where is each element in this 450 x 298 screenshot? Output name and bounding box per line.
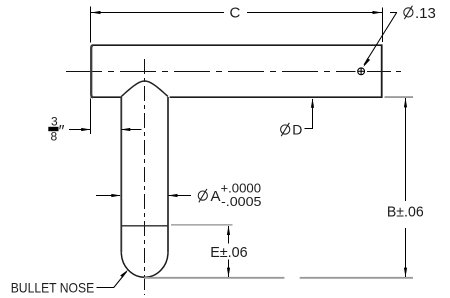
svg-text:-.0005: -.0005 (221, 195, 262, 209)
dim E line (228, 226, 230, 277)
nose tangency line (121, 225, 168, 227)
svg-text:BULLET NOSE: BULLET NOSE (11, 279, 95, 295)
bar body outline (91, 44, 383, 98)
hole leader arrow (363, 58, 370, 67)
svg-text:D: D (292, 121, 302, 137)
svg-text:.13: .13 (415, 5, 436, 22)
svg-text:+.0000: +.0000 (221, 182, 262, 196)
svg-text:B±.06: B±.06 (387, 203, 424, 220)
dim B arrows (404, 98, 407, 108)
dim 3/8 extension line (90, 99, 92, 135)
hole circle (358, 68, 365, 75)
dimension C extension line right (382, 8, 384, 43)
bar left end (91, 45, 93, 97)
bottom extension line (144, 277, 413, 279)
horizontal centerline (66, 71, 404, 73)
dimension C line (91, 12, 382, 14)
dim B extension line top (385, 96, 414, 98)
stem-bar intersection dome (121, 81, 168, 97)
svg-text:E±.06: E±.06 (210, 244, 247, 261)
dim A label (198, 182, 261, 209)
dim 3/8 arrow left (69, 129, 90, 131)
dim D leader (305, 99, 313, 129)
svg-text:A: A (211, 188, 221, 205)
dim B line (405, 98, 407, 277)
bullet nose leader arrow (120, 270, 128, 278)
dim 3/8 label (48, 115, 64, 144)
svg-text:3: 3 (51, 115, 58, 129)
dim E extension line (171, 224, 233, 226)
dimension C arrows (91, 11, 101, 14)
dim 3/8 arrow right (122, 129, 142, 131)
dim A arrow left (96, 195, 120, 197)
dim A arrow right (169, 195, 191, 197)
vertical centerline (144, 59, 146, 295)
hole leader line (364, 12, 397, 65)
svg-text:C: C (230, 4, 241, 21)
stem outline (121, 97, 168, 252)
dim E arrows (227, 226, 230, 236)
bullet nose arc (121, 252, 168, 277)
svg-text:8: 8 (51, 130, 58, 144)
svg-text:″: ″ (59, 123, 65, 141)
bullet nose leader (97, 272, 127, 288)
dimension C extension line left (90, 7, 92, 43)
dim D label (281, 121, 303, 137)
hole diameter label (404, 5, 436, 22)
